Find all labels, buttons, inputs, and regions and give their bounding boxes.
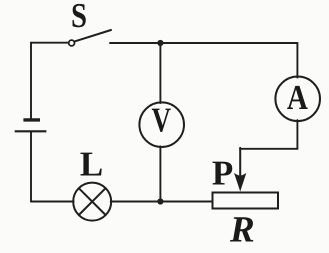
svg-text:L: L xyxy=(80,145,103,184)
svg-text:V: V xyxy=(152,101,172,140)
wire top-left horizontal (battery to switch) xyxy=(31,42,68,44)
wiper P arrow xyxy=(235,148,246,191)
wire right vertical into ammeter xyxy=(296,43,298,78)
node junction bottom (voltmeter tap on bottom rail) xyxy=(157,198,163,204)
wire left vertical lower (battery positive to bottom rail) xyxy=(30,131,32,201)
voltmeter V xyxy=(139,101,184,148)
wire left vertical upper (battery negative to top rail) xyxy=(30,43,32,119)
node junction top (voltmeter tap on top rail) xyxy=(157,40,163,46)
wire bottom left (battery branch to lamp) xyxy=(31,201,74,203)
wire corner to wiper arm xyxy=(240,148,297,150)
battery xyxy=(15,120,47,131)
svg-text:A: A xyxy=(287,78,309,117)
wire bottom rail (lamp to rheostat) xyxy=(111,201,212,203)
wire voltmeter top branch xyxy=(159,43,161,103)
svg-text:R: R xyxy=(229,210,255,251)
svg-text:S: S xyxy=(71,0,87,35)
rheostat R xyxy=(213,193,279,209)
switch S xyxy=(69,30,111,46)
wire voltmeter bottom branch xyxy=(159,146,161,201)
ammeter A xyxy=(275,77,320,122)
wire top rail (switch to top-right corner) xyxy=(110,42,297,44)
svg-text:P: P xyxy=(212,154,233,193)
wire ammeter bottom to corner xyxy=(296,120,298,149)
lamp L xyxy=(73,183,111,221)
